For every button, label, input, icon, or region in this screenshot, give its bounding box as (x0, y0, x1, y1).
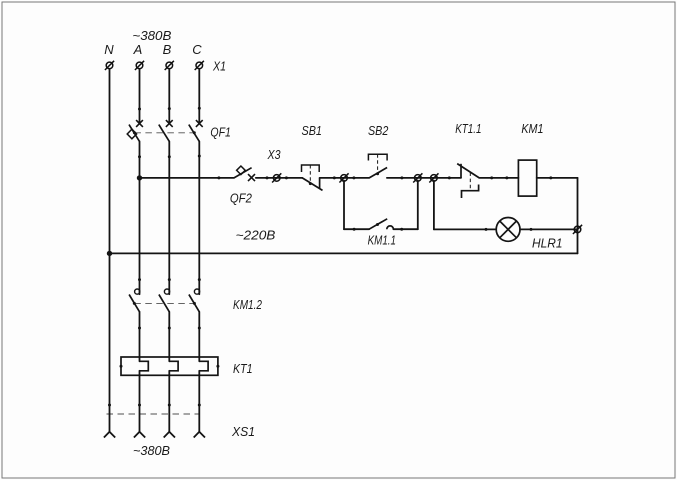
wire KM1.1 branch bottom left (344, 228, 369, 230)
svg-text:QF2: QF2 (230, 191, 253, 206)
thermal relay KT1 box (121, 357, 218, 375)
wire KM1.1 branch left vertical (343, 181, 345, 230)
wire neutral ~220V line (110, 252, 578, 254)
pushbutton SB1 (302, 165, 323, 190)
svg-text:KT1: KT1 (233, 361, 253, 376)
wire phase B: QF1 to KM1.2 (168, 141, 170, 294)
terminal X3 (272, 173, 281, 182)
wire right vertical to neutral (577, 178, 579, 254)
pin dots (108, 107, 552, 407)
wire phase A: QF1 to KM1.2 (139, 141, 141, 294)
wire KM1 coil to right corner (537, 177, 578, 179)
terminal node SB1-SB2 (339, 173, 348, 182)
terminal X1 N (105, 61, 114, 70)
thermal relay KT1 heater A (140, 361, 149, 371)
wire phase C: QF1 to KM1.2 (198, 141, 200, 294)
svg-text:C: C (192, 42, 202, 57)
wire lamp to right vertical (520, 228, 578, 230)
wire N bus vertical (109, 69, 111, 432)
svg-text:~380В: ~380В (133, 443, 170, 458)
contact KM1.1 (369, 219, 393, 229)
wire SB1 to SB2 (320, 177, 370, 179)
wire phase B: KM1.2 to KT1 (168, 312, 170, 362)
coil KM1 (518, 160, 536, 196)
wire phase B: KT1 to XS1 (168, 371, 170, 432)
terminal X1 C (195, 61, 204, 70)
wire control line A-node to QF2 (140, 177, 235, 179)
wire phase A: KT1 to XS1 (139, 371, 141, 432)
wire phase C: KT1 to XS1 (198, 371, 200, 432)
svg-text:KM1: KM1 (521, 121, 543, 136)
svg-text:KM1.1: KM1.1 (368, 233, 396, 248)
thermal relay KT1 heater B (169, 361, 178, 371)
junction node N/neutral (107, 251, 112, 256)
terminal X1 A (135, 61, 144, 70)
wire lamp branch to lamp (434, 228, 496, 230)
wire phase B: terminal to QF1 (168, 69, 170, 124)
svg-text:KT1.1: KT1.1 (455, 121, 481, 136)
wire phase A: terminal to QF1 (139, 69, 141, 124)
terminal node lamp left (429, 173, 438, 182)
wire lamp branch left vertical (433, 181, 435, 230)
wire KM1.1 branch right vertical (417, 181, 419, 230)
junction node A/control (137, 175, 142, 180)
svg-text:SB2: SB2 (368, 123, 389, 138)
wire SB2 to KT1.1 (387, 177, 461, 179)
wire QF2 to SB1 (256, 177, 302, 179)
wire KM1.1 branch bottom right (393, 228, 417, 230)
wire phase A: KM1.2 to KT1 (139, 312, 141, 362)
wire phase C: KM1.2 to KT1 (198, 312, 200, 362)
svg-text:KM1.2: KM1.2 (233, 297, 263, 312)
terminal node KM1.1 right (413, 173, 422, 182)
breaker QF2 (234, 166, 255, 181)
svg-text:X3: X3 (267, 147, 281, 162)
svg-text:A: A (133, 42, 143, 57)
XS1 link dashes (107, 413, 201, 415)
breaker QF1 (127, 120, 203, 141)
terminal X1 B (165, 61, 174, 70)
svg-text:X1: X1 (212, 59, 226, 74)
svg-text:~220В: ~220В (236, 228, 276, 243)
svg-text:HLR1: HLR1 (532, 236, 563, 251)
svg-text:~380В: ~380В (132, 28, 171, 43)
contactor KM1.2 pole A (129, 289, 140, 312)
contactor KM1.2 pole B (159, 289, 170, 312)
thermal relay KT1 heater C (199, 361, 208, 371)
wire phase C: terminal to QF1 (198, 69, 200, 124)
svg-text:B: B (163, 42, 172, 57)
contact KT1.1 (457, 164, 479, 198)
svg-text:QF1: QF1 (210, 124, 231, 139)
pushbutton SB2 (368, 154, 387, 178)
svg-text:SB1: SB1 (302, 123, 322, 138)
wire KT1.1 to KM1 coil (479, 177, 518, 179)
terminal node lamp right (573, 225, 582, 234)
socket XS1 forks (104, 432, 205, 438)
lamp HLR1 (496, 218, 520, 242)
KM1.2 link dashes (134, 302, 194, 304)
svg-text:N: N (104, 42, 114, 57)
svg-text:XS1: XS1 (231, 424, 255, 439)
contactor KM1.2 pole C (189, 289, 200, 312)
